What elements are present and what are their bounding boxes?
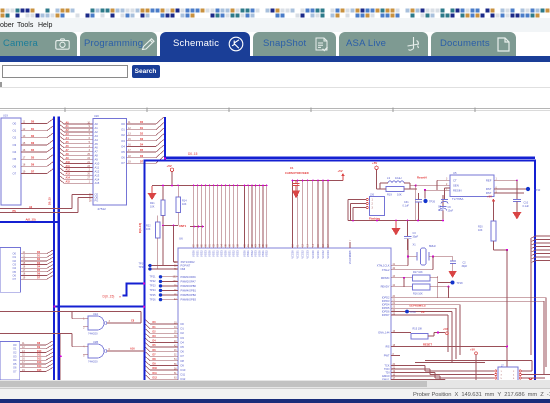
svg-text:O2: O2 bbox=[121, 133, 125, 137]
svg-text:+5V: +5V bbox=[487, 194, 492, 198]
svg-text:IOPD2: IOPD2 bbox=[382, 296, 390, 300]
svg-text:VCC01: VCC01 bbox=[296, 250, 300, 259]
svg-text:D13: D13 bbox=[37, 361, 42, 364]
svg-text:SEN: SEN bbox=[453, 184, 459, 188]
svg-text:3: 3 bbox=[109, 320, 111, 323]
svg-text:O0: O0 bbox=[121, 122, 125, 126]
svg-text:D12: D12 bbox=[153, 376, 158, 379]
NAND gate U2A bbox=[83, 312, 110, 336]
svg-text:O2: O2 bbox=[13, 136, 17, 140]
svg-text:10K: 10K bbox=[146, 228, 151, 231]
wire bus exit left (thick, y222) bbox=[0, 221, 59, 223]
svg-text:2: 2 bbox=[513, 371, 515, 373]
svg-text:VSS2: VSS2 bbox=[250, 250, 254, 257]
wire U21 rows to bus A bbox=[21, 250, 53, 279]
schematic sheet ruler bbox=[0, 108, 550, 112]
svg-text:XNT1: XNT1 bbox=[179, 224, 187, 228]
svg-text:O3: O3 bbox=[13, 143, 17, 147]
status bar bbox=[0, 388, 550, 399]
svg-text:O3: O3 bbox=[13, 263, 17, 267]
svg-text:VSS2: VSS2 bbox=[265, 250, 269, 257]
svg-text:O4: O4 bbox=[121, 144, 125, 148]
svg-text:IOPD7: IOPD7 bbox=[382, 313, 390, 317]
svg-text:VSS3: VSS3 bbox=[220, 250, 224, 257]
svg-text:TP26: TP26 bbox=[429, 201, 436, 204]
svg-text:C10: C10 bbox=[524, 202, 529, 205]
svg-text:C1: C1 bbox=[290, 166, 294, 170]
test point TP18 bbox=[451, 281, 464, 286]
svg-text:6: 6 bbox=[109, 348, 111, 351]
svg-text:J26: J26 bbox=[370, 193, 375, 196]
svg-text:A2: A2 bbox=[95, 130, 99, 134]
wire VCC rail bbox=[152, 185, 268, 187]
svg-text:PWM5/OPB2: PWM5/OPB2 bbox=[181, 293, 197, 297]
svg-text:IOPD5: IOPD5 bbox=[382, 306, 390, 310]
svg-text:TP19: TP19 bbox=[139, 262, 146, 265]
resistor R16 10K bbox=[381, 284, 450, 298]
svg-text:O5: O5 bbox=[13, 270, 17, 274]
net label D(0..15) with chevron bbox=[103, 295, 122, 299]
MCU top VSS pin group B bbox=[243, 185, 269, 257]
svg-text:C8: C8 bbox=[131, 320, 135, 323]
svg-text:A7: A7 bbox=[95, 150, 99, 154]
tab Schematic (active) bbox=[160, 32, 250, 57]
power +5V terminal (MCU rail) bbox=[167, 164, 174, 186]
svg-text:»: » bbox=[119, 295, 121, 299]
svg-text:A12: A12 bbox=[95, 169, 100, 173]
svg-text:D14: D14 bbox=[37, 365, 42, 368]
svg-text:VSS0: VSS0 bbox=[243, 250, 247, 257]
svg-text:VSS0: VSS0 bbox=[224, 250, 228, 257]
svg-text:VSS1: VSS1 bbox=[246, 250, 250, 257]
svg-text:D11: D11 bbox=[153, 372, 158, 375]
svg-text:A1: A1 bbox=[95, 126, 99, 130]
NAND gate U2B bbox=[83, 340, 110, 364]
capacitor C31 0.1uF bbox=[403, 193, 423, 221]
wire IOPD vertical runs bbox=[448, 298, 546, 375]
svg-text:POP/NT: POP/NT bbox=[181, 264, 191, 268]
svg-text:30pF: 30pF bbox=[413, 236, 419, 239]
svg-text:A15: A15 bbox=[95, 181, 100, 185]
wire stack exiting right edge bbox=[531, 236, 550, 263]
MCU U6 box bbox=[178, 248, 391, 380]
svg-text:TL7705A: TL7705A bbox=[452, 197, 463, 201]
svg-text:D10: D10 bbox=[181, 368, 186, 372]
svg-text:C31: C31 bbox=[404, 201, 409, 204]
svg-text:VCC00: VCC00 bbox=[311, 250, 315, 259]
svg-text:VSS0: VSS0 bbox=[257, 250, 261, 257]
svg-text:O0: O0 bbox=[13, 121, 17, 125]
svg-text:27512: 27512 bbox=[98, 207, 107, 211]
svg-text:VSS1: VSS1 bbox=[228, 250, 232, 257]
svg-text:VCCP/MOD5: VCCP/MOD5 bbox=[350, 250, 352, 264]
svg-text:TP10: TP10 bbox=[534, 188, 541, 192]
junction bus A tie bbox=[53, 305, 55, 307]
schematic canvas bbox=[0, 88, 550, 380]
svg-text:A14: A14 bbox=[95, 177, 100, 181]
svg-text:TP25: TP25 bbox=[150, 294, 157, 297]
svg-text:10K: 10K bbox=[150, 205, 155, 208]
svg-text:A13: A13 bbox=[95, 173, 100, 177]
svg-text:C9: C9 bbox=[448, 206, 452, 209]
svg-text:R20: R20 bbox=[478, 225, 483, 228]
svg-text:XTAL2: XTAL2 bbox=[382, 268, 390, 272]
svg-text:XNT1/OPA2: XNT1/OPA2 bbox=[181, 260, 196, 264]
svg-text:A9: A9 bbox=[95, 158, 99, 162]
wire JTAG TCK/TDO/TDI/EMU stairs bbox=[382, 364, 494, 382]
svg-text:VSS2: VSS2 bbox=[232, 250, 236, 257]
MCU pin PWT bbox=[384, 354, 400, 358]
svg-text:VSS1: VSS1 bbox=[261, 250, 265, 257]
svg-text:30pF: 30pF bbox=[462, 265, 468, 268]
junction tie / sheet edge bbox=[143, 306, 145, 308]
svg-text:A16: A16 bbox=[130, 348, 135, 351]
svg-text:NMI: NMI bbox=[181, 267, 186, 271]
svg-text:D2: D2 bbox=[181, 331, 185, 335]
connector C1 capacitor feed rail and MCU VCC pins bbox=[285, 166, 343, 259]
wire U20 outputs O0-O7 to bus C bbox=[127, 117, 164, 163]
IC U22 (latch) box bbox=[0, 341, 20, 380]
svg-text:+5V: +5V bbox=[372, 161, 377, 165]
wire U20 chip-select nets PS / A(0..15) bbox=[0, 195, 93, 222]
toolbar bbox=[0, 62, 550, 88]
svg-text:Flashing: Flashing bbox=[369, 217, 380, 221]
horizontal scrollbar bbox=[0, 380, 550, 388]
svg-text:A3: A3 bbox=[95, 134, 99, 138]
svg-text:O4: O4 bbox=[13, 266, 17, 270]
svg-text:A4: A4 bbox=[95, 138, 99, 142]
svg-text:PWT: PWT bbox=[384, 354, 390, 358]
svg-text:O1: O1 bbox=[13, 347, 17, 351]
caret mark bbox=[0, 82, 2, 87]
wire D bus elbow bbox=[123, 284, 145, 296]
svg-text:O6: O6 bbox=[121, 156, 125, 160]
svg-text:O4: O4 bbox=[13, 358, 17, 362]
svg-text:TP36: TP36 bbox=[410, 311, 416, 314]
connector J26 Flashing bbox=[348, 193, 385, 220]
svg-text:TP18: TP18 bbox=[457, 282, 464, 285]
wire net XNT1 bbox=[162, 224, 186, 266]
wire MCU data rows D0-D12 from bus bbox=[146, 320, 186, 381]
svg-text:D8: D8 bbox=[181, 359, 185, 363]
svg-text:D4: D4 bbox=[181, 340, 185, 344]
wire U19 data rows D0-D7 to bus bbox=[21, 119, 53, 174]
bottom navy strip bbox=[0, 399, 550, 403]
resistor R22 10K bbox=[146, 216, 178, 270]
svg-text:A11: A11 bbox=[66, 165, 71, 168]
test points TP19 TP20 bbox=[139, 262, 163, 270]
svg-text:4: 4 bbox=[83, 346, 85, 349]
search button bbox=[132, 65, 160, 79]
capacitor C3 30pF bbox=[404, 221, 419, 251]
svg-text:28: 28 bbox=[89, 199, 92, 202]
capacitor C10 0.1uF with ground arrow bbox=[513, 180, 530, 219]
svg-text:EMU0: EMU0 bbox=[382, 374, 390, 378]
svg-text:U20: U20 bbox=[94, 114, 99, 118]
capacitor C8 10uF bbox=[438, 188, 450, 212]
power +5V (capacitor feed rail) bbox=[338, 169, 345, 180]
svg-text:A15: A15 bbox=[66, 181, 71, 184]
svg-text:O7: O7 bbox=[121, 161, 125, 165]
svg-text:IOPD6: IOPD6 bbox=[382, 310, 390, 314]
svg-text:3: 3 bbox=[501, 375, 503, 377]
svg-text:A14: A14 bbox=[66, 177, 71, 180]
svg-text:D10: D10 bbox=[37, 350, 42, 353]
wire U2B output net A16 bbox=[0, 334, 145, 355]
svg-text:VSS0: VSS0 bbox=[208, 250, 212, 257]
svg-text:EEPROM/CS: EEPROM/CS bbox=[410, 303, 426, 307]
svg-text:PG: PG bbox=[95, 199, 99, 203]
IC U19 (left RAM) box bbox=[1, 114, 21, 206]
power +5V terminal (L3 feed) bbox=[372, 161, 378, 189]
svg-text:O5: O5 bbox=[13, 157, 17, 161]
svg-text:A10: A10 bbox=[66, 161, 71, 164]
wire net ResetH to U5 bbox=[410, 175, 450, 220]
wire U22 rows to bus A bbox=[20, 341, 53, 372]
junction bus C / sheet bbox=[164, 157, 166, 159]
svg-text:O5: O5 bbox=[121, 150, 125, 154]
crystal X1 8MHz with C2 bbox=[377, 239, 468, 278]
svg-text:TP21: TP21 bbox=[150, 276, 157, 279]
svg-text:CS: CS bbox=[421, 311, 425, 314]
wire U2A loop net C8 bbox=[0, 312, 141, 327]
svg-text:TDO: TDO bbox=[384, 367, 389, 371]
svg-text:L3: L3 bbox=[387, 176, 390, 180]
ground arrow (rail) bbox=[392, 221, 401, 236]
svg-text:U2B: U2B bbox=[93, 340, 98, 344]
resistor R15 10K on ENA_144 bbox=[378, 327, 448, 339]
svg-text:D3: D3 bbox=[181, 336, 185, 340]
svg-text:R15 10K: R15 10K bbox=[413, 327, 423, 330]
svg-text:74HC00: 74HC00 bbox=[88, 360, 98, 364]
decorative mosaic band bbox=[0, 8, 550, 18]
svg-text:10K: 10K bbox=[478, 229, 483, 232]
svg-text:O0: O0 bbox=[13, 343, 17, 347]
svg-text:VCC01: VCC01 bbox=[316, 250, 320, 259]
svg-text:D12: D12 bbox=[37, 357, 42, 360]
IC U5 TL7705A supervisor bbox=[446, 171, 498, 201]
svg-text:TP23: TP23 bbox=[150, 285, 157, 288]
svg-text:0.1uF: 0.1uF bbox=[523, 205, 530, 208]
svg-text:XTAL1CLK: XTAL1CLK bbox=[377, 264, 390, 268]
wire bus B (vertical address bus) bbox=[58, 117, 60, 381]
svg-text:8MHz: 8MHz bbox=[429, 244, 436, 248]
svg-text:D1: D1 bbox=[181, 327, 185, 331]
svg-text:/RS: /RS bbox=[385, 345, 390, 349]
svg-text:VCC02: VCC02 bbox=[301, 250, 305, 259]
MCU pin VCCP/MOD5 bbox=[350, 239, 352, 264]
junction elbow / sheet edge bbox=[143, 282, 145, 284]
wire horizontal y362.5 bbox=[415, 362, 485, 364]
svg-text:TDI: TDI bbox=[385, 371, 389, 375]
power +5V terminal (bottom) bbox=[470, 347, 477, 380]
svg-text:TP24: TP24 bbox=[150, 289, 157, 292]
svg-text:D6: D6 bbox=[181, 350, 185, 354]
svg-text:CT: CT bbox=[453, 178, 457, 182]
svg-text:O4: O4 bbox=[13, 150, 17, 154]
inductor L3 10uH bbox=[380, 176, 410, 189]
search input bbox=[2, 65, 128, 79]
capacitor C9 10uF bbox=[440, 195, 454, 221]
svg-text:VCC03: VCC03 bbox=[306, 250, 310, 259]
svg-text:D0: D0 bbox=[181, 322, 185, 326]
svg-text:VSS3: VSS3 bbox=[204, 250, 208, 257]
svg-text:MP/MC: MP/MC bbox=[381, 276, 390, 280]
svg-text:PWM3/OPB0: PWM3/OPB0 bbox=[181, 284, 197, 288]
svg-text:D11: D11 bbox=[181, 373, 186, 377]
svg-text:O6: O6 bbox=[13, 273, 17, 277]
svg-text:READY: READY bbox=[381, 285, 390, 289]
svg-text:REF: REF bbox=[486, 178, 492, 182]
svg-text:X1: X1 bbox=[413, 243, 417, 247]
wire bus A (vertical data bus) bbox=[53, 117, 55, 381]
svg-text:PS: PS bbox=[13, 210, 17, 213]
svg-text:D9: D9 bbox=[181, 363, 185, 367]
svg-text:O0: O0 bbox=[13, 252, 17, 256]
svg-text:D0..15: D0..15 bbox=[48, 197, 52, 205]
svg-text:10uH: 10uH bbox=[395, 176, 401, 180]
MCU PWM pins with test points TP21-TP26 bbox=[150, 275, 197, 302]
svg-text:ResetH: ResetH bbox=[417, 175, 427, 179]
svg-text:O6: O6 bbox=[13, 366, 17, 370]
svg-text:4: 4 bbox=[513, 375, 515, 377]
svg-text:A8: A8 bbox=[95, 154, 99, 158]
svg-text:D0..15: D0..15 bbox=[188, 152, 198, 156]
svg-text:R16 10K: R16 10K bbox=[413, 292, 423, 295]
svg-text:U6: U6 bbox=[179, 237, 183, 241]
svg-text:C3: C3 bbox=[413, 232, 417, 235]
svg-text:74HC00: 74HC00 bbox=[88, 332, 98, 336]
test point TP36 bbox=[405, 310, 425, 315]
svg-text:VCC00: VCC00 bbox=[291, 250, 295, 259]
svg-text:R19: R19 bbox=[387, 193, 392, 197]
svg-text:1: 1 bbox=[83, 318, 85, 321]
svg-text:O3: O3 bbox=[13, 354, 17, 358]
svg-text:ENA_144: ENA_144 bbox=[378, 331, 390, 335]
resistor R19 10K bbox=[377, 187, 418, 197]
svg-text:TP22: TP22 bbox=[150, 280, 157, 283]
MCU pins XNT1/POP/NMI bbox=[174, 260, 195, 271]
junction rail/+5V bbox=[171, 185, 173, 187]
svg-text:A13: A13 bbox=[66, 173, 71, 176]
wire net RESET bbox=[385, 342, 508, 348]
svg-text:O2: O2 bbox=[13, 351, 17, 355]
svg-text:10uF: 10uF bbox=[448, 210, 454, 213]
svg-text:7: 7 bbox=[350, 239, 352, 241]
svg-text:U19: U19 bbox=[3, 114, 8, 118]
svg-text:PWM1/OPA6: PWM1/OPA6 bbox=[181, 275, 197, 279]
connector J7 (bottom right header) bbox=[425, 361, 550, 383]
wire stub (dots near XNT1) bbox=[190, 226, 204, 228]
MCU IOPD2-IOPD7 pins and wires bbox=[382, 296, 546, 317]
blue strip under tabs bbox=[0, 56, 550, 62]
svg-text:R17 10K: R17 10K bbox=[413, 271, 423, 274]
svg-text:VSS2: VSS2 bbox=[200, 250, 204, 257]
svg-text:3: 3 bbox=[372, 207, 374, 210]
svg-text:PWM4/OPB1: PWM4/OPB1 bbox=[181, 288, 197, 292]
svg-text:D11: D11 bbox=[37, 354, 42, 357]
svg-text:10K: 10K bbox=[397, 193, 402, 197]
IC U21 (latch) box bbox=[0, 247, 21, 292]
svg-text:TP26: TP26 bbox=[150, 298, 157, 301]
svg-text:D10: D10 bbox=[153, 367, 158, 370]
svg-text:RESET: RESET bbox=[423, 342, 432, 346]
svg-text:+5V: +5V bbox=[443, 327, 448, 331]
svg-text:+5V: +5V bbox=[470, 347, 475, 351]
wire vertical net (x507) bbox=[506, 250, 508, 367]
svg-text:+5V: +5V bbox=[338, 169, 343, 173]
IC U20 (EPROM 27512) box bbox=[89, 114, 127, 211]
tab Camera bbox=[0, 32, 77, 57]
svg-text:VSS1: VSS1 bbox=[196, 250, 200, 257]
svg-text:TCK: TCK bbox=[384, 364, 389, 368]
svg-text:1: 1 bbox=[372, 199, 374, 202]
tab Documents bbox=[431, 32, 516, 57]
svg-text:2: 2 bbox=[372, 203, 374, 206]
svg-text:1: 1 bbox=[501, 371, 503, 373]
svg-text:IOPD3: IOPD3 bbox=[382, 299, 390, 303]
tab ASA Live bbox=[339, 32, 428, 57]
svg-text:VSS0: VSS0 bbox=[192, 250, 196, 257]
wire bus C (D bus to sheet) bbox=[165, 117, 535, 158]
tab Programming bbox=[80, 32, 157, 57]
svg-text:A12: A12 bbox=[66, 169, 71, 172]
svg-text:D(0..15): D(0..15) bbox=[138, 223, 142, 233]
svg-text:CAPACITOR FEED: CAPACITOR FEED bbox=[285, 171, 309, 175]
wire vertical (x531) bbox=[530, 238, 532, 355]
svg-text:O7: O7 bbox=[13, 370, 17, 374]
svg-text:O2: O2 bbox=[13, 259, 17, 263]
wire bus tie (horizontal) bbox=[54, 306, 145, 308]
wire address rows A0-A15 bus to U20 bbox=[60, 121, 93, 184]
svg-text:A5: A5 bbox=[95, 142, 99, 146]
resistor R21 10K bbox=[150, 185, 165, 226]
svg-text:C2: C2 bbox=[463, 262, 467, 265]
svg-text:VSS3: VSS3 bbox=[254, 250, 258, 257]
svg-text:O1: O1 bbox=[13, 129, 17, 133]
tab SnapShot bbox=[253, 32, 336, 57]
svg-text:O3: O3 bbox=[121, 139, 125, 143]
svg-text:+5V: +5V bbox=[167, 164, 172, 168]
resistor R20 10K with +5V bbox=[478, 194, 508, 251]
test point TP10 bbox=[526, 187, 541, 192]
svg-text:VSS2: VSS2 bbox=[216, 250, 220, 257]
wire net drop (x60.8) with junction bbox=[60, 334, 62, 381]
svg-text:D15: D15 bbox=[37, 369, 42, 372]
svg-text:D(0..15): D(0..15) bbox=[103, 295, 115, 299]
capacitor C1 arrow symbol bbox=[292, 181, 300, 199]
svg-text:O5: O5 bbox=[13, 362, 17, 366]
svg-text:VCC02: VCC02 bbox=[321, 250, 325, 259]
svg-text:O6: O6 bbox=[13, 164, 17, 168]
svg-text:U2A: U2A bbox=[93, 312, 98, 316]
svg-text:0.1uF: 0.1uF bbox=[403, 205, 410, 208]
svg-text:O1: O1 bbox=[121, 128, 125, 132]
svg-text:O7: O7 bbox=[13, 172, 17, 176]
resistor R17 10K bbox=[381, 271, 451, 298]
svg-text:PWM6/OPB3: PWM6/OPB3 bbox=[181, 298, 197, 302]
test point TP26 dot bbox=[423, 199, 435, 204]
svg-text:D7: D7 bbox=[181, 354, 185, 358]
MCU top VSS pin group A bbox=[192, 185, 240, 257]
svg-text:A11: A11 bbox=[95, 165, 100, 169]
svg-text:A10: A10 bbox=[95, 162, 100, 166]
svg-text:A6: A6 bbox=[95, 146, 99, 150]
svg-text:RESIN: RESIN bbox=[453, 188, 462, 192]
svg-text:O7: O7 bbox=[13, 277, 17, 281]
svg-text:TP20: TP20 bbox=[139, 266, 146, 269]
svg-text:VSS1: VSS1 bbox=[212, 250, 216, 257]
